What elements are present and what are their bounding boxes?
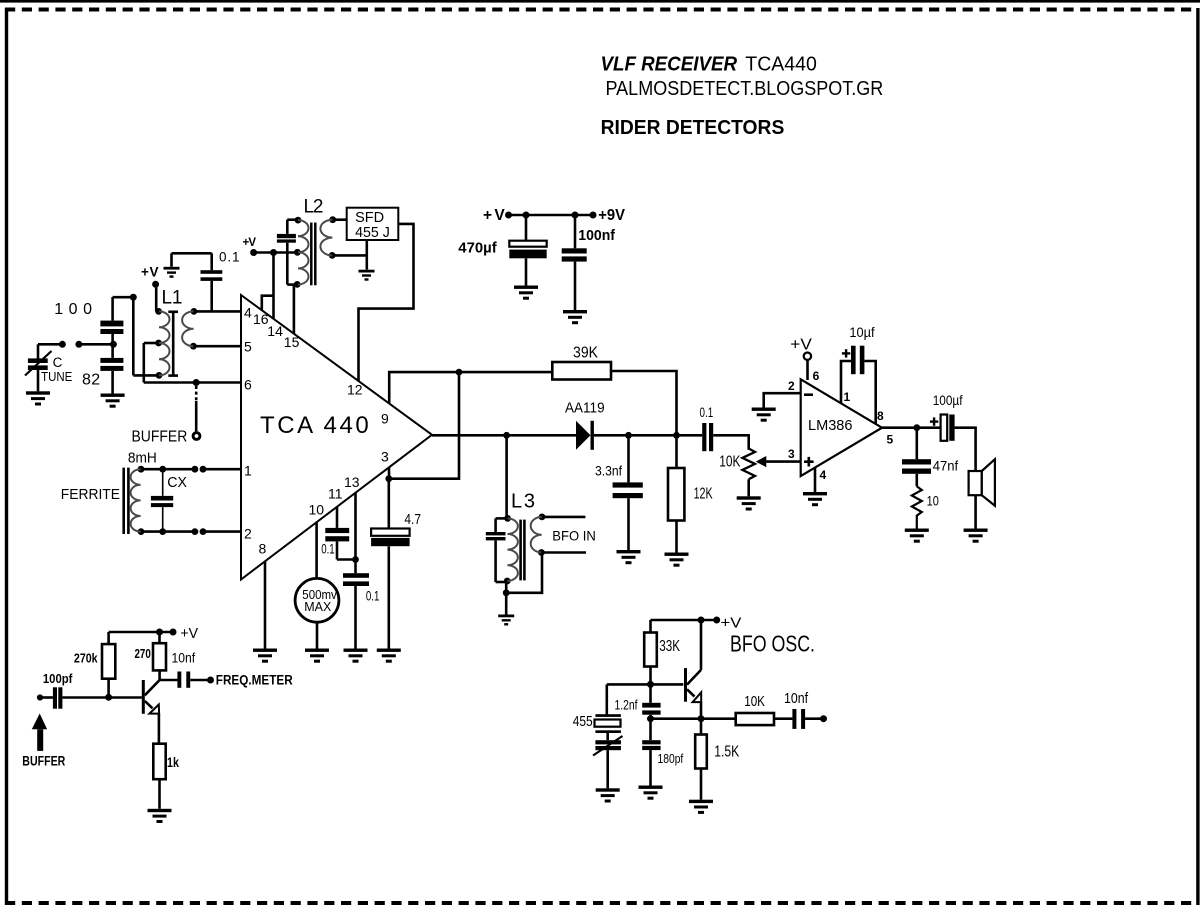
plus sign 10uf <box>842 349 850 357</box>
arrow BUFFER input <box>32 714 47 751</box>
capacitor 3.3nf <box>613 435 643 550</box>
wire L3 secondary return <box>506 553 542 593</box>
ground under 4.7 <box>377 649 401 663</box>
ground under 82 <box>101 394 125 408</box>
capacitor 100uf electrolytic <box>941 415 955 441</box>
svg-text:+9V: +9V <box>598 207 625 224</box>
wire TCA output to diode <box>432 434 576 437</box>
svg-text:270k: 270k <box>74 652 98 666</box>
capacitor trimmer below 455 <box>593 733 623 788</box>
wire 0.1 to small ground <box>172 252 212 255</box>
wire pot wiper to LM386 <box>765 460 801 463</box>
wire pin13 lead <box>354 493 357 573</box>
resistor 10 zobel <box>912 486 922 529</box>
svg-text:47nf: 47nf <box>933 458 959 474</box>
svg-text:+V: +V <box>180 626 198 642</box>
svg-text:100pf: 100pf <box>43 672 73 686</box>
capacitor 100 <box>100 297 123 344</box>
capacitor C TUNE variable <box>25 344 52 391</box>
svg-text:TUNE: TUNE <box>41 369 72 384</box>
pin 4 wire to ground <box>814 468 817 492</box>
speaker <box>969 459 995 506</box>
svg-text:4.7: 4.7 <box>404 511 421 528</box>
wire +V rail <box>509 214 594 217</box>
svg-text:5: 5 <box>887 433 894 447</box>
node +V (BFO) terminal dot <box>713 617 720 624</box>
wire L1 bot-right to pin5 <box>193 345 241 348</box>
wire pin12 riser <box>359 224 414 381</box>
capacitor L3 parallel <box>486 518 508 582</box>
svg-text:15: 15 <box>284 334 300 350</box>
svg-text:3: 3 <box>788 447 795 461</box>
wire pin2 lead <box>141 530 195 533</box>
ground under zobel <box>905 529 929 543</box>
svg-text:L2: L2 <box>304 197 324 218</box>
svg-text:1.2nf: 1.2nf <box>615 697 638 713</box>
svg-text:12K: 12K <box>694 486 713 503</box>
svg-text:470µf: 470µf <box>458 241 497 257</box>
wire 470uf bottom lead <box>525 258 528 285</box>
label C TUNE <box>41 355 72 384</box>
ground under SFD <box>359 270 375 281</box>
capacitor 10uf gain <box>841 346 876 424</box>
capacitor 4.7 electrolytic <box>371 479 410 649</box>
crystal 455 <box>595 714 621 733</box>
capacitor 10nf (freq meter) <box>160 672 211 688</box>
svg-text:33K: 33K <box>659 638 680 655</box>
resistor 10K BFO <box>701 713 792 725</box>
svg-text:82: 82 <box>82 372 100 389</box>
wire +V to L2 center tap <box>254 251 298 254</box>
wire junction dot 12K <box>673 432 680 439</box>
svg-text:12: 12 <box>347 382 363 398</box>
svg-text:L3: L3 <box>511 491 535 513</box>
diode AA119 <box>576 421 594 450</box>
ground pin8 <box>253 649 277 663</box>
node +V (L2) terminal dot <box>250 249 257 256</box>
svg-text:100nf: 100nf <box>578 228 615 244</box>
wire 100nf bottom lead <box>574 262 577 310</box>
svg-text:8mH: 8mH <box>128 451 157 467</box>
svg-text:CX: CX <box>167 475 187 491</box>
node FREQ.METER terminal dot <box>207 677 214 684</box>
wire junction dot pin13/pin11 <box>352 556 359 563</box>
svg-text:6: 6 <box>813 369 820 383</box>
wire L3 tap down <box>505 435 508 518</box>
svg-text:2: 2 <box>244 526 252 542</box>
ground under 10K pot <box>737 496 761 510</box>
potentiometer 10K <box>742 449 766 497</box>
wire 100uf to speaker <box>955 428 976 471</box>
svg-text:SFD: SFD <box>355 210 384 226</box>
minus sign pin2 <box>804 393 813 396</box>
wire +V to L1 <box>155 284 158 311</box>
svg-text:5: 5 <box>244 339 252 355</box>
ground pin4 LM386 <box>803 492 827 506</box>
plus sign pin3 <box>804 457 814 467</box>
svg-text:10µf: 10µf <box>849 324 874 340</box>
ground under 12K <box>665 553 689 567</box>
ground under 3.3nf <box>617 550 641 564</box>
wire pin15 riser <box>293 285 296 334</box>
wire junction dot pin6/buffer <box>193 379 200 386</box>
wire pin2 to TCA <box>203 530 241 533</box>
wire junction dot pin3 <box>385 475 392 482</box>
wire break to cap divider <box>79 343 114 346</box>
wire junction dot L3 ground <box>503 589 510 596</box>
svg-text:10K: 10K <box>744 693 765 710</box>
wire +V to pin6 <box>806 360 809 380</box>
wire junction dot emitter rail left <box>647 715 654 722</box>
wire L2 right top to SFD <box>333 218 347 221</box>
svg-text:BFO OSC.: BFO OSC. <box>730 631 815 657</box>
svg-text:0.1: 0.1 <box>321 542 335 557</box>
resistor 1.5K <box>695 719 707 800</box>
inductor ferrite rod <box>124 466 145 535</box>
svg-text:+V: +V <box>483 207 505 224</box>
svg-text:+V: +V <box>243 237 257 249</box>
capacitor 0.1 (pin11) <box>325 507 355 560</box>
wire junction dot L3 tap <box>503 432 510 439</box>
svg-text:BUFFER: BUFFER <box>22 753 65 769</box>
wire L3 secondary bottom (BFO IN) <box>541 551 586 554</box>
capacitor 82 <box>100 344 123 393</box>
svg-text:100µf: 100µf <box>933 392 963 408</box>
capacitor 10nf BFO <box>792 709 823 729</box>
wire L2 right bottom to gnd stem <box>332 254 367 257</box>
wire 39K right down <box>611 371 677 435</box>
wire junction dot collector <box>698 617 705 624</box>
svg-text:14: 14 <box>267 323 283 339</box>
wire 470uf top lead <box>525 215 528 241</box>
wire junction dot 100nf <box>572 212 579 219</box>
capacitor 0.1 (pin4 bypass) <box>201 253 223 311</box>
wire pin1 lead <box>141 468 195 471</box>
capacitor L2 parallel 0.1 <box>277 220 298 285</box>
svg-text:FREQ.METER: FREQ.METER <box>216 673 293 688</box>
svg-text:MAX: MAX <box>304 600 332 614</box>
svg-text:4: 4 <box>820 468 827 482</box>
transformer L2 <box>294 216 336 287</box>
resistor 33K <box>644 620 657 684</box>
svg-text:0.1: 0.1 <box>700 405 714 420</box>
wire pin3 link <box>389 372 459 479</box>
wire pin9 riser <box>389 372 552 403</box>
svg-text:LM386: LM386 <box>808 417 853 434</box>
resistor 1k <box>153 744 165 809</box>
svg-text:RIDER DETECTORS: RIDER DETECTORS <box>601 117 785 139</box>
ground under 470uf <box>514 286 538 300</box>
svg-text:1: 1 <box>844 390 851 404</box>
ground under speaker <box>964 529 988 543</box>
ground under C TUNE <box>26 391 50 405</box>
wire BFO +V rail <box>651 619 717 622</box>
node +9V terminal dot <box>590 212 597 219</box>
node +V (buffer) terminal dot <box>170 629 177 636</box>
ground near +V L1 <box>164 267 180 278</box>
resistor 270 <box>153 632 166 680</box>
capacitor 1.2nf <box>642 684 660 740</box>
svg-text:8: 8 <box>259 541 267 557</box>
wire junction dot base <box>647 681 654 688</box>
node +V terminal dot <box>505 212 512 219</box>
plus sign 100uf <box>930 417 938 425</box>
capacitor 100pf <box>40 687 142 708</box>
wire junction dot output <box>913 424 920 431</box>
capacitor 0.1 (pin13) <box>343 573 369 648</box>
filter SFD 455 J box <box>347 208 399 240</box>
svg-text:FERRITE: FERRITE <box>61 487 121 503</box>
node pin2 break dots <box>192 528 207 535</box>
svg-text:9: 9 <box>381 411 389 427</box>
svg-text:270: 270 <box>135 647 151 661</box>
wire 500mv to ground <box>316 622 319 648</box>
wire emitter rail <box>651 717 702 720</box>
node BUFFER terminal circle <box>193 433 200 440</box>
pin 2 wire to ground <box>764 393 801 407</box>
op-amp LM386 triangle <box>801 379 882 476</box>
transformer L3 <box>504 514 546 585</box>
capacitor CX <box>151 466 173 535</box>
svg-text:TCA 440: TCA 440 <box>260 412 369 439</box>
svg-text:6: 6 <box>244 377 252 393</box>
node +V (L1) terminal dot <box>152 281 159 288</box>
svg-text:L1: L1 <box>162 288 183 309</box>
resistor 270k <box>102 632 115 697</box>
ground under 455 <box>596 788 620 802</box>
ground under 180pf <box>639 786 663 800</box>
resistor 12K <box>668 435 684 552</box>
svg-text:0.1: 0.1 <box>219 250 240 265</box>
wire buffer tap solid <box>195 401 198 431</box>
wire dashed buffer tap <box>195 386 198 401</box>
wire pin10 lead <box>315 522 318 578</box>
op-amp TCA 440 triangle <box>241 295 432 580</box>
svg-text:+V: +V <box>721 615 742 632</box>
wire buffer +V rail <box>109 631 173 634</box>
svg-text:C: C <box>53 355 63 370</box>
wire speaker to ground <box>974 495 977 528</box>
svg-text:455: 455 <box>573 713 593 730</box>
svg-text:+V: +V <box>790 337 812 354</box>
svg-text:4: 4 <box>244 305 252 321</box>
wire SFD bottom stem <box>365 240 368 270</box>
ground under L3 <box>498 615 514 626</box>
svg-text:1k: 1k <box>167 755 179 770</box>
capacitor 47nf zobel <box>902 428 931 487</box>
svg-text:BUFFER: BUFFER <box>132 429 188 446</box>
wire junction dot 270 top <box>156 629 163 636</box>
capacitor 100nf <box>562 248 587 261</box>
ground pin2 LM386 <box>752 408 776 422</box>
transistor Q1 buffer <box>142 680 160 744</box>
wire junction dot pin14 <box>270 249 277 256</box>
transistor Q2 BFO <box>684 620 701 719</box>
capacitor 470uf electrolytic <box>509 241 546 259</box>
svg-text:10nf: 10nf <box>784 690 809 707</box>
wire pin16 step to +V <box>262 296 274 311</box>
wire 100nf top lead <box>574 215 577 248</box>
resistor 39K <box>552 362 611 380</box>
svg-text:10K: 10K <box>719 454 740 471</box>
wire junction dot emitter <box>698 715 705 722</box>
wire L3 primary to ground <box>505 581 508 615</box>
node break dot left <box>59 341 66 348</box>
node pin1 break dots <box>192 466 207 473</box>
crystal 455 branch wire <box>605 684 608 715</box>
svg-text:1.5K: 1.5K <box>714 744 739 761</box>
ground under 1.5K <box>689 800 713 814</box>
svg-text:10: 10 <box>927 493 939 509</box>
ground under pin13 cap <box>344 649 368 663</box>
svg-text:3.3nf: 3.3nf <box>595 463 622 479</box>
svg-text:0.1: 0.1 <box>366 589 380 604</box>
capacitor 0.1 coupling <box>702 423 713 451</box>
wire pin8 lead <box>264 561 267 648</box>
svg-text:455 J: 455 J <box>355 225 390 241</box>
svg-text:BFO IN: BFO IN <box>552 528 596 544</box>
node buffer input dot <box>37 694 43 700</box>
svg-text:180pf: 180pf <box>658 751 684 766</box>
wire 0.1 to pot <box>713 435 749 449</box>
svg-text:11: 11 <box>328 486 343 502</box>
wire junction dot 3.3nf <box>625 432 632 439</box>
wire L1 center tap to pin6 <box>144 343 241 383</box>
svg-text:TCA440: TCA440 <box>745 53 817 76</box>
svg-text:3: 3 <box>381 449 389 465</box>
wire base rail <box>607 683 684 686</box>
wire L2 bottom to pin15 <box>293 285 296 287</box>
meter 500mv MAX circle <box>295 578 339 622</box>
svg-text:8: 8 <box>877 409 884 423</box>
wire small ground stub <box>170 253 173 266</box>
wire L1 top-right to pin4 <box>194 310 241 313</box>
ground under 500mv <box>305 649 329 663</box>
wire junction dot 39K left <box>456 369 463 376</box>
wire junction dot 470uf <box>523 212 530 219</box>
ground under 1k <box>148 809 172 823</box>
svg-text:10: 10 <box>309 502 325 518</box>
wire C TUNE to break <box>38 343 62 346</box>
wire junction dot base/270k <box>105 694 112 701</box>
svg-text:PALMOSDETECT.BLOGSPOT.GR: PALMOSDETECT.BLOGSPOT.GR <box>606 77 884 100</box>
transformer L1 <box>155 308 197 379</box>
svg-text:10nf: 10nf <box>172 651 196 666</box>
node BFO output terminal dot <box>820 715 827 722</box>
wire 100 top to L1 bottom <box>113 294 160 376</box>
svg-text:+V: +V <box>141 265 159 280</box>
ground under 100nf <box>563 310 587 324</box>
wire junction dot divider <box>110 341 117 348</box>
wire diode to 0.1 <box>594 434 702 437</box>
wire L3 secondary top (BFO IN) <box>542 516 585 519</box>
node break dot right <box>75 341 82 348</box>
svg-text:AA119: AA119 <box>565 400 605 417</box>
svg-text:39K: 39K <box>573 345 598 362</box>
svg-text:VLF RECEIVER: VLF RECEIVER <box>601 53 738 76</box>
svg-text:100: 100 <box>54 301 92 318</box>
svg-text:13: 13 <box>344 474 360 490</box>
wire pin1 to TCA <box>203 468 241 471</box>
wire LM386 output <box>882 426 941 429</box>
node +V (LM386) terminal circle <box>804 353 811 360</box>
wire pin14 riser <box>272 253 275 319</box>
capacitor 180pf <box>642 740 660 785</box>
svg-text:2: 2 <box>788 379 795 393</box>
svg-text:1: 1 <box>244 463 252 479</box>
